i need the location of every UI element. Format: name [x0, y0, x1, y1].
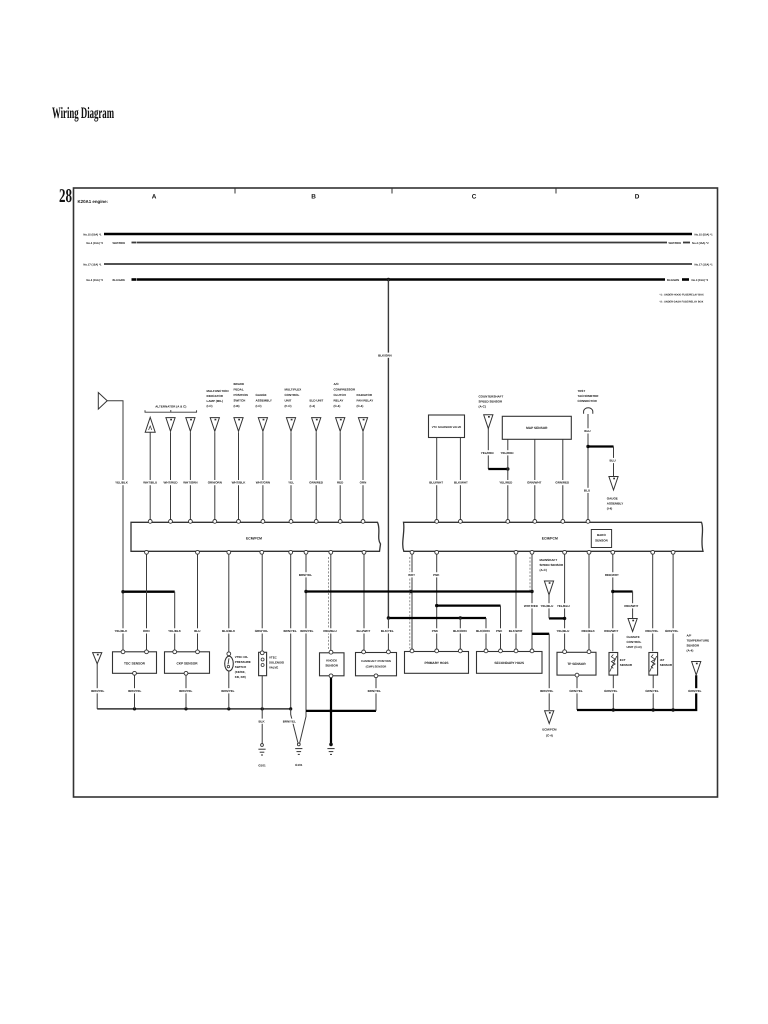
svg-text:(A-C): (A-C) [540, 568, 547, 572]
svg-text:G101: G101 [295, 763, 303, 767]
wire ECT sensor ground [612, 675, 614, 710]
connector symbol test tachometer [584, 408, 593, 414]
wire column 3 to ECM/PCM [189, 432, 191, 519]
CKP sensor box [165, 652, 210, 674]
wire RED/YEL to IAT sensor [652, 554, 654, 651]
svg-text:YEL/RED: YEL/RED [499, 481, 513, 485]
svg-text:CLIMATE: CLIMATE [627, 635, 640, 639]
wire YEL/RED MAP sensor [507, 439, 509, 519]
svg-text:GRN/WHT: GRN/WHT [527, 481, 541, 485]
svg-text:(F-C): (F-C) [285, 404, 292, 408]
wire label YEL/RED countershaft [480, 450, 494, 455]
wire label RED/BLU lower [323, 628, 337, 633]
svg-text:(I-C): (I-C) [256, 404, 262, 408]
wire RED/WHT climate stub [632, 592, 634, 619]
node junction GRN/YEL ground [671, 708, 674, 711]
node junction bus A end [289, 707, 292, 710]
node junction RED/WHT [611, 590, 614, 593]
wire WHT to primary HO2S [411, 554, 413, 649]
svg-text:COUNTERSHAFT: COUNTERSHAFT [479, 395, 504, 399]
wire label BRN/YEL lower [283, 628, 297, 633]
svg-text:RED/WHT: RED/WHT [605, 573, 619, 577]
svg-text:ORN: ORN [143, 629, 150, 633]
svg-text:TACHOMETER: TACHOMETER [578, 394, 600, 398]
wire label BLU/WHT lower [357, 628, 371, 633]
wire label WHT/RED mid [524, 603, 538, 608]
node junction BRN/YEL at 306 [304, 590, 307, 593]
wire BLK/WHT VTC solenoid valve [459, 438, 461, 520]
wire PNK to primary HO2S [436, 554, 438, 649]
wire BLK/GRN main drop [387, 280, 389, 619]
svg-text:SWITCH: SWITCH [234, 399, 246, 403]
svg-text:BLK/GRN: BLK/GRN [378, 353, 392, 357]
connector triangle gauge assembly right [609, 477, 618, 491]
wire WHT/RED to secondary HO2S [531, 554, 533, 649]
svg-text:WHT/RED: WHT/RED [164, 481, 179, 485]
svg-text:YEL/RED: YEL/RED [481, 451, 495, 455]
ground bus right segment [577, 675, 696, 710]
secondary HO2S pins [484, 649, 488, 653]
diagram border frame [74, 188, 718, 797]
wire TDC sensor ground [134, 673, 136, 709]
svg-text:No.17 (15A) *1: No.17 (15A) *1 [695, 263, 714, 266]
wire label YEL/BLK [115, 480, 129, 485]
node junction BLK ground tap [261, 707, 264, 710]
svg-text:RED/YEL: RED/YEL [645, 629, 658, 633]
wire BLU test tachometer connector [587, 414, 589, 520]
wire label ORN [360, 480, 367, 485]
wire column 10 to ECM/PCM [362, 432, 364, 519]
svg-text:BRN/YEL: BRN/YEL [299, 573, 312, 577]
svg-text:BLK: BLK [259, 719, 266, 723]
wire label GRN/YEL lower [255, 628, 269, 633]
svg-text:WHT/BLK: WHT/BLK [232, 481, 247, 485]
node junction PNK [435, 604, 438, 607]
frame grid tick 1 [234, 188, 236, 194]
svg-text:No.4 (15A) *2: No.4 (15A) *2 [86, 279, 103, 282]
wire label BRN/YEL near ground [282, 719, 296, 724]
svg-text:MALFUNCTION: MALFUNCTION [207, 389, 229, 393]
svg-text:BRN/YEL: BRN/YEL [368, 689, 381, 693]
svg-text:28: 28 [59, 186, 72, 207]
svg-text:No.17 (15A) *1: No.17 (15A) *1 [83, 263, 102, 266]
wire label BRN/YEL ground [179, 688, 193, 693]
svg-text:BLK/YEL: BLK/YEL [381, 629, 394, 633]
wire label PNK upper [433, 572, 440, 577]
wire label GRN/YEL ground [645, 688, 659, 693]
wire YEL/BLU to TP sensor [564, 554, 566, 650]
wire BLU/WHT VTC solenoid valve [436, 438, 438, 520]
svg-text:WHT: WHT [408, 573, 415, 577]
wire label BRN/YEL ground [221, 688, 235, 693]
wire RED/BLK to TP sensor [588, 554, 590, 650]
svg-text:GRN/YEL: GRN/YEL [665, 629, 679, 633]
node junction YEL/BLK [121, 590, 124, 593]
svg-text:GRN/YEL: GRN/YEL [688, 689, 702, 693]
svg-text:ASSEMBLY: ASSEMBLY [607, 502, 623, 506]
svg-text:ECM/PCM: ECM/PCM [246, 536, 262, 540]
connector triangle BRN/YEL stub [93, 653, 102, 664]
svg-text:GAUGE: GAUGE [607, 497, 618, 501]
svg-text:TDC SENSOR: TDC SENSOR [124, 661, 146, 665]
connector triangle alternator pin 1 (up arrow) [145, 417, 155, 432]
svg-text:KNOCK: KNOCK [326, 659, 338, 663]
wire label BRN/YEL ground [540, 688, 554, 693]
svg-text:No.15 (50A) *1: No.15 (50A) *1 [695, 233, 714, 236]
svg-text:COMPRESSOR: COMPRESSOR [334, 388, 357, 392]
svg-text:TEST: TEST [578, 389, 586, 393]
svg-text:No.4 (15A) *2: No.4 (15A) *2 [692, 242, 709, 245]
svg-text:RED/BLU: RED/BLU [323, 629, 336, 633]
svg-text:BLK/ORN: BLK/ORN [453, 629, 467, 633]
svg-text:B: B [311, 193, 316, 200]
svg-text:A: A [152, 193, 157, 200]
VTC solenoid valve top box [429, 415, 465, 438]
wire label PNK lower [431, 628, 438, 633]
wire BLK/ORN to secondary HO2S [485, 618, 487, 649]
svg-text:SOLENOID: SOLENOID [269, 661, 284, 665]
svg-text:BLU: BLU [610, 459, 616, 463]
svg-text:CONNECTOR: CONNECTOR [578, 399, 598, 403]
BARO sensor box inside ECM/PCM [591, 530, 611, 548]
TDC sensor box [113, 652, 157, 674]
wire BLK/YEL to CMP sensor [387, 618, 389, 650]
svg-text:PRIMARY HO2S: PRIMARY HO2S [424, 661, 448, 665]
svg-text:YEL/BLK: YEL/BLK [115, 481, 129, 485]
svg-text:WHT/GRN: WHT/GRN [256, 481, 270, 485]
svg-text:A/F: A/F [687, 634, 692, 638]
svg-text:BLK/GRN: BLK/GRN [113, 279, 125, 282]
VTEC solenoid valve pin [260, 651, 264, 655]
svg-text:ORN: ORN [360, 481, 367, 485]
svg-text:(CMP) SENSOR: (CMP) SENSOR [366, 664, 387, 668]
svg-text:K20A1 engine:: K20A1 engine: [78, 199, 109, 204]
svg-text:BRN/YEL: BRN/YEL [284, 629, 297, 633]
wire label WHT/BLU [143, 480, 157, 485]
svg-text:A/C: A/C [334, 382, 340, 386]
svg-text:GAUGE: GAUGE [256, 393, 267, 397]
wire WHT/RED bold elbow to ECM/PCM connector [532, 633, 549, 635]
svg-text:TEMPERATURE: TEMPERATURE [687, 639, 710, 643]
wire BRN/YEL stub connector drop [96, 664, 98, 709]
wire RED/WHT to ECT sensor [612, 554, 614, 651]
wire column 9 to ECM/PCM [339, 432, 341, 519]
svg-text:No.4 (15A) *2: No.4 (15A) *2 [86, 242, 103, 245]
svg-text:CKP SENSOR: CKP SENSOR [176, 661, 198, 665]
connector triangle alternator incoming YEL/BLK [98, 393, 107, 410]
wire ground V left leg [291, 709, 298, 743]
wire label BLK/GRN main drop [378, 353, 392, 358]
wire column 4 to ECM/PCM [214, 432, 216, 519]
node junction YEL/BLU [563, 617, 566, 620]
power bus No.4 (15A) WHT/RED wire [137, 242, 667, 244]
svg-text:VTEC OIL: VTEC OIL [235, 655, 249, 659]
connector triangle MIL [210, 418, 219, 432]
wire label BLK [258, 719, 265, 724]
svg-text:MAINSHAFT: MAINSHAFT [540, 558, 558, 562]
svg-text:RADIATOR: RADIATOR [357, 393, 373, 397]
svg-text:SENSOR: SENSOR [687, 644, 701, 648]
svg-text:MAP SENSOR: MAP SENSOR [526, 426, 548, 430]
wire column 2 to ECM/PCM [170, 432, 172, 519]
svg-text:SENSOR: SENSOR [660, 663, 673, 667]
wire label YEL/BLK lower [168, 628, 182, 633]
svg-text:RED: RED [337, 481, 344, 485]
svg-text:KB, KR): KB, KR) [235, 675, 246, 679]
power bus No.15 (50A) wire [104, 233, 692, 236]
wire label BRN/YEL upper [299, 572, 313, 577]
knock sensor pins [329, 650, 333, 654]
wire CKP sensor ground [185, 673, 187, 709]
svg-text:No.15 (50A) *1: No.15 (50A) *1 [83, 233, 102, 236]
wire GRN/WHT MAP sensor [534, 439, 536, 519]
wire YEL/RED countershaft speed sensor [487, 429, 489, 470]
svg-text:UNIT: UNIT [285, 399, 292, 403]
svg-text:CONTROL: CONTROL [627, 640, 642, 644]
wire BLU/WHT to CMP sensor [363, 554, 365, 649]
wire YEL/BLU bold jog mainshaft [549, 617, 565, 619]
svg-text:BRN/YEL: BRN/YEL [179, 689, 192, 693]
TP sensor box [557, 652, 596, 675]
wire label RED/WHT lower [604, 628, 618, 633]
wire label BLU lower [194, 628, 201, 633]
wire label YEL/BLK lower [114, 628, 128, 633]
wire label BLK/WHT lower [509, 628, 523, 633]
node junction on BLK/GRN bus [387, 278, 391, 282]
svg-text:BRN/YEL: BRN/YEL [91, 689, 104, 693]
wire GRN/RED MAP sensor [562, 439, 564, 519]
wire BLK/WHT to secondary HO2S [515, 554, 517, 649]
svg-text:CAMSHAFT POSITION: CAMSHAFT POSITION [361, 659, 391, 663]
svg-text:BLK/GRN: BLK/GRN [667, 279, 679, 282]
svg-text:(A-C): (A-C) [479, 405, 486, 409]
svg-text:BLU: BLU [584, 429, 590, 433]
connector triangle radiator fan relay [358, 418, 367, 432]
wire BRN/YEL ground 1 [290, 554, 292, 709]
wire label WHT/GRN [256, 480, 270, 485]
wire label BLU/WHT [429, 480, 443, 485]
VTEC oil pressure switch pin [227, 652, 231, 656]
ground G101 right [297, 743, 300, 746]
wire label RED/YEL lower [645, 628, 659, 633]
connector triangle climate control unit [628, 619, 637, 632]
svg-text:WHT/RED: WHT/RED [113, 242, 126, 245]
wire YEL/BLK jog bold [123, 591, 175, 593]
svg-text:BARO: BARO [597, 533, 606, 537]
knock sensor box [320, 653, 345, 676]
wire column 6 to ECM/PCM [262, 432, 264, 519]
ECM/PCM right top pins [435, 520, 439, 524]
wire label GRN/RED [555, 480, 569, 485]
svg-text:GRN/YEL: GRN/YEL [604, 689, 618, 693]
wire YEL/BLK continues to TDC sensor [122, 592, 124, 650]
wire column 5 to ECM/PCM [238, 432, 240, 519]
wire YEL/BLK from alternator L terminal [107, 401, 123, 592]
connector triangle brake pedal position switch [234, 418, 243, 432]
wire label YEL/BLU lower [556, 628, 570, 633]
wire label RED/WHT mid [625, 603, 639, 608]
node junction YEL/RED [506, 467, 509, 470]
svg-text:BRN/YEL: BRN/YEL [128, 689, 141, 693]
svg-text:IAT: IAT [660, 658, 665, 662]
connector triangle alternator pin 3 [186, 418, 195, 432]
svg-text:ECM/PCM: ECM/PCM [542, 536, 558, 540]
CKP sensor pins [173, 650, 177, 654]
wire label BRN/YEL ground [91, 688, 105, 693]
wire label YEL/RED MAP [500, 450, 514, 455]
wire label BLK/WHT [454, 480, 468, 485]
wire BLU bold jog to gauge assembly [588, 445, 614, 447]
wire label WHT/BLK [232, 480, 246, 485]
shield WHT/RED [529, 557, 531, 591]
svg-text:BLK/WHT: BLK/WHT [509, 629, 523, 633]
wire BLU gauge assembly stub [613, 447, 615, 477]
node junction TDC ground [133, 707, 136, 710]
svg-text:ALTERNATOR (A & C): ALTERNATOR (A & C) [155, 405, 186, 409]
wire column 7 to ECM/PCM [290, 432, 292, 519]
power bus No.17 (15A) wire [104, 263, 692, 265]
wire label GRN/YEL ground [569, 688, 583, 693]
wire label YEL/BLU mid [556, 603, 570, 608]
svg-text:GRN/ORN: GRN/ORN [208, 481, 222, 485]
wire BLK/ORN to primary HO2S [459, 618, 461, 649]
svg-text:RELAY: RELAY [334, 399, 344, 403]
wire YEL/BLK down to CKP sensor [174, 592, 176, 650]
svg-text:(I-4): (I-4) [310, 404, 316, 408]
secondary HO2S box [477, 652, 543, 674]
svg-text:(I-B): (I-B) [234, 404, 240, 408]
wire label WHT/RED [164, 480, 178, 485]
wire label WHT/GRN [184, 480, 198, 485]
svg-text:BRN/YEL: BRN/YEL [540, 689, 553, 693]
wire BRN/YEL bold collector [306, 590, 532, 592]
svg-text:BLU: BLU [194, 629, 200, 633]
ECM/PCM left top pins [148, 520, 152, 524]
svg-text:CONTROL: CONTROL [285, 393, 300, 397]
svg-text:WHT/GRN: WHT/GRN [183, 481, 197, 485]
connector triangle ECM/PCM C-4 [545, 711, 554, 724]
primary HO2S box [405, 652, 469, 674]
node junction IAT ground [652, 708, 655, 711]
svg-text:BLU: BLU [584, 489, 590, 493]
wire label GRN/ORN [208, 480, 222, 485]
node junction CKP ground [184, 707, 187, 710]
VTEC solenoid valve box [259, 652, 267, 675]
svg-text:INDICATOR: INDICATOR [207, 394, 224, 398]
wire label BRN/YEL ground [128, 688, 142, 693]
wire label GRN/YEL ground [688, 688, 702, 693]
bracket ALTERNATOR group [145, 410, 197, 412]
svg-text:UNIT (C-D): UNIT (C-D) [627, 645, 642, 649]
svg-text:WHT/RED: WHT/RED [524, 604, 539, 608]
wire label BLK/ORN lower [453, 628, 467, 633]
svg-text:SENSOR: SENSOR [620, 663, 633, 667]
svg-text:RED/BLK: RED/BLK [582, 629, 596, 633]
wire GRN/YEL sensor ground long [672, 554, 674, 710]
wire label GRN/RED [309, 480, 323, 485]
svg-text:BLU/WHT: BLU/WHT [429, 481, 443, 485]
svg-text:ELD UNIT: ELD UNIT [310, 399, 324, 403]
svg-text:PNK: PNK [432, 629, 439, 633]
TDC sensor pins [121, 650, 125, 654]
svg-text:Wiring Diagram: Wiring Diagram [52, 105, 114, 122]
connector triangle mainshaft speed sensor [544, 581, 553, 595]
wire label BLK/ORN lower [476, 628, 490, 633]
shield WHT primary HO2S [409, 557, 411, 649]
svg-text:YEL/BLK: YEL/BLK [114, 629, 128, 633]
wire BLK/ORN bold feed [388, 617, 486, 619]
svg-text:ECT: ECT [620, 658, 626, 662]
wire RED/BLU knock sensor [330, 554, 332, 650]
wire IAT sensor ground [652, 675, 654, 710]
svg-text:PEDAL: PEDAL [234, 388, 244, 392]
svg-text:*2 : UNDER-DASH FUSE/RELAY BOX: *2 : UNDER-DASH FUSE/RELAY BOX [660, 300, 704, 303]
svg-text:GRN/RED: GRN/RED [309, 481, 324, 485]
svg-text:BRN/YEL: BRN/YEL [221, 689, 234, 693]
wire BRN/YEL to ECM/PCM connector triangle [548, 634, 550, 710]
wire knock sensor shield ground bold [330, 677, 332, 743]
svg-text:POSITION: POSITION [234, 393, 248, 397]
node junction shield drain at 411 [409, 590, 412, 593]
connector triangle alternator pin 2 [166, 418, 175, 432]
ground bus segment B bold [306, 710, 376, 712]
svg-text:FAN RELAY: FAN RELAY [357, 399, 374, 403]
node junction BLK/ORN at 460 [459, 616, 462, 619]
wire ORN to TDC sensor [146, 554, 148, 649]
VTEC oil pressure switch oval [225, 656, 234, 671]
svg-text:WHT/RED: WHT/RED [669, 242, 682, 245]
svg-text:(C-4): (C-4) [334, 404, 341, 408]
svg-text:BLK/ORN: BLK/ORN [476, 629, 490, 633]
wire PNK to secondary HO2S [500, 606, 502, 649]
wire label RED/BLK lower [581, 628, 595, 633]
shield RED/BLU knock sensor [328, 557, 330, 650]
wire label BRN/YEL ground [367, 688, 381, 693]
svg-text:PNK: PNK [433, 573, 440, 577]
svg-text:(C-4): (C-4) [357, 404, 364, 408]
wire label GRN/YEL lower [665, 628, 679, 633]
wire label YEL/RED [499, 480, 513, 485]
svg-text:YEL/BLU: YEL/BLU [557, 604, 570, 608]
svg-text:(I-C): (I-C) [207, 404, 213, 408]
wire label GRN/YEL ground [604, 688, 618, 693]
wire YEL/RED bold jog [488, 468, 508, 470]
wire BLK to ground G101 [261, 676, 263, 744]
svg-text:GRN/RED: GRN/RED [555, 481, 570, 485]
svg-text:BLU/WHT: BLU/WHT [356, 629, 370, 633]
wire label GRN/WHT [527, 480, 541, 485]
ECT sensor box [609, 653, 618, 676]
svg-text:VTC SOLENOID VALVE: VTC SOLENOID VALVE [432, 426, 462, 429]
svg-text:RED/WHT: RED/WHT [624, 604, 638, 608]
wire YEL/BLU mainshaft stub [548, 595, 550, 619]
svg-text:PRESSURE: PRESSURE [235, 660, 251, 664]
IAT sensor box [649, 653, 658, 676]
svg-text:YEL/RED: YEL/RED [500, 451, 514, 455]
connector triangle A/F temperature sensor [692, 662, 701, 676]
svg-text:SENSOR: SENSOR [595, 539, 609, 543]
svg-text:YEL: YEL [288, 481, 294, 485]
svg-text:SECONDARY HO2S: SECONDARY HO2S [494, 661, 524, 665]
ground bus left segment A [97, 708, 291, 710]
frame grid tick 3 [555, 188, 557, 194]
wire VTEC oil pressure switch ground [228, 671, 230, 709]
svg-text:No.4 (15A) *2: No.4 (15A) *2 [692, 279, 709, 282]
svg-text:(I-4): (I-4) [607, 507, 613, 511]
svg-text:SWITCH: SWITCH [235, 665, 246, 669]
ECM/PCM right bottom pins [410, 550, 414, 554]
svg-text:PNK: PNK [496, 629, 503, 633]
